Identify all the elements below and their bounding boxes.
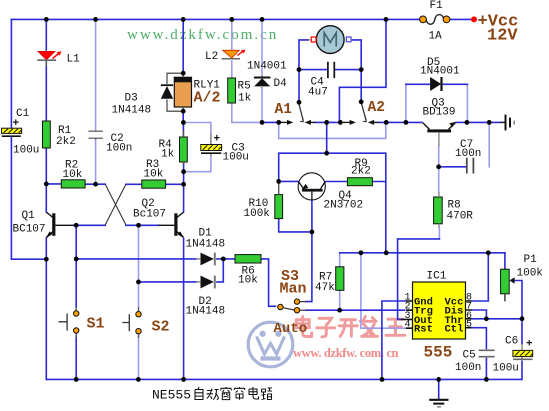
watermark red url bottom <box>293 346 399 360</box>
transistor Q2 <box>159 212 185 238</box>
svg-text:100n: 100n <box>106 143 132 155</box>
diode D1 <box>196 253 217 266</box>
svg-text:1N4148: 1N4148 <box>112 105 152 117</box>
svg-text:P1: P1 <box>524 254 538 266</box>
capacitor C6 <box>513 344 533 361</box>
svg-text:100n: 100n <box>455 148 481 160</box>
svg-text:2k2: 2k2 <box>56 136 76 148</box>
watermark green url top <box>127 27 278 43</box>
wire left border <box>11 19 46 259</box>
potentiometer P1 <box>501 269 515 301</box>
wire D5 horizontals <box>406 83 468 85</box>
capacitor C4 <box>328 62 334 78</box>
wire pin1 Gnd down <box>382 301 406 379</box>
IC1 pin names <box>414 297 463 336</box>
transistor Q4 <box>298 173 325 200</box>
wire D1 row <box>76 258 223 260</box>
LED L1 <box>37 51 61 67</box>
svg-text:100u: 100u <box>493 363 519 375</box>
wire contact rail right segment <box>456 121 501 123</box>
wire S3 Man contact up <box>306 232 312 302</box>
pushbutton S2 <box>122 308 141 339</box>
node +Vcc terminal <box>471 16 477 22</box>
wire motor right lead down <box>352 40 362 102</box>
svg-text:100k: 100k <box>244 208 271 220</box>
svg-text:D3: D3 <box>125 93 138 105</box>
capacitor C7 <box>467 158 474 174</box>
svg-text:NE555: NE555 <box>152 388 191 403</box>
svg-text:1N4001: 1N4001 <box>247 61 287 73</box>
svg-text:10k: 10k <box>63 169 83 181</box>
svg-text:www.dzkfw.com.cn: www.dzkfw.com.cn <box>127 27 278 43</box>
relay contact A1 <box>281 104 316 125</box>
svg-text:Auto: Auto <box>274 321 308 337</box>
watermark pink CJK 电子开发王 <box>296 317 405 337</box>
svg-text:12V: 12V <box>487 27 518 46</box>
diode D3 with bracket <box>161 73 183 111</box>
wire +12V sub-feed y153 <box>279 122 386 252</box>
svg-text:Man: Man <box>280 281 307 298</box>
svg-text:10k: 10k <box>144 169 164 181</box>
diode D5 <box>430 77 441 91</box>
svg-text:+: + <box>13 118 20 130</box>
wire L1/R1/Q1 column <box>45 19 47 379</box>
wire R7 leads light <box>339 253 341 310</box>
resistor R6 <box>235 255 261 263</box>
wire Q2 base row <box>126 224 159 226</box>
svg-text:100n: 100n <box>455 362 481 374</box>
resistor R2 <box>61 180 85 188</box>
wire Thr row <box>472 318 523 320</box>
ground earth bottom <box>429 400 448 407</box>
svg-text:S1: S1 <box>87 316 105 333</box>
capacitor C5 <box>479 350 495 356</box>
wire bypass U light <box>279 122 386 138</box>
title CJK 自动窗帘电路 <box>195 387 272 400</box>
wire ground stub bottom <box>438 379 440 398</box>
wire C4 row <box>299 69 361 71</box>
svg-text:10k: 10k <box>238 275 258 287</box>
wire D2 row <box>139 259 224 282</box>
svg-text:2k2: 2k2 <box>351 166 371 178</box>
capacitor C1 <box>2 128 22 137</box>
pushbutton S1 <box>59 307 79 338</box>
wire Q4 emitter down <box>311 200 313 232</box>
svg-text:+: + <box>214 134 221 146</box>
cross-coupling diagonals <box>105 184 126 224</box>
svg-text:100u: 100u <box>13 145 39 157</box>
svg-text:4u7: 4u7 <box>308 87 328 99</box>
svg-text:1N4148: 1N4148 <box>186 306 226 318</box>
wire C7 row <box>439 166 466 168</box>
ground chassis right <box>501 115 515 131</box>
wire C6 column <box>521 319 523 380</box>
wire C3 loop light <box>183 123 211 172</box>
wire motor left lead down <box>299 40 309 102</box>
svg-text:BC107: BC107 <box>13 224 46 236</box>
svg-text:www. dzkfw. com. cn: www. dzkfw. com. cn <box>293 346 399 360</box>
wire pin5 Ctl to C5 <box>472 328 487 380</box>
svg-text:L2: L2 <box>205 51 218 63</box>
wire relay column <box>182 19 184 122</box>
svg-text:BD139: BD139 <box>423 107 456 119</box>
svg-text:S2: S2 <box>152 319 170 336</box>
wire Rst path light <box>361 253 406 328</box>
svg-text:47k: 47k <box>315 282 335 294</box>
wire R4 / Q2 collector column <box>182 123 184 212</box>
resistor R3 <box>142 180 166 188</box>
resistor R1 <box>43 121 51 148</box>
wire +12V feed to A2 contact <box>339 19 386 122</box>
wire top rail <box>11 18 472 20</box>
svg-text:1k: 1k <box>238 93 252 105</box>
LED L2 <box>222 50 246 59</box>
wire Q3 base / R8 light <box>438 146 441 239</box>
svg-text:C5: C5 <box>463 350 476 362</box>
wire pin8 Vcc up <box>472 253 489 301</box>
wire contact rail left segment <box>262 121 422 123</box>
svg-text:Q1: Q1 <box>22 210 36 222</box>
wire P1 wiper to Thr <box>514 281 522 319</box>
IC1 pin numbers <box>405 293 473 331</box>
svg-text:R5: R5 <box>238 81 251 93</box>
svg-text:Ctl: Ctl <box>445 324 464 336</box>
wire Q2 emitter <box>183 239 185 380</box>
motor M <box>308 26 352 54</box>
svg-text:IC1: IC1 <box>427 271 447 283</box>
svg-text:555: 555 <box>424 344 453 362</box>
svg-text:Rst: Rst <box>414 324 433 336</box>
svg-text:4: 4 <box>405 320 411 331</box>
wire L2/R5 column light <box>232 19 262 122</box>
svg-text:1N4001: 1N4001 <box>420 66 460 78</box>
svg-text:1A: 1A <box>429 31 443 43</box>
resistor R4 <box>180 130 188 165</box>
svg-text:A1: A1 <box>275 102 293 118</box>
wire bottom rail <box>46 378 521 380</box>
svg-text:100u: 100u <box>223 152 249 164</box>
wire pin7 Dis down <box>472 310 487 319</box>
wire R6 row and S3 feed <box>223 259 275 306</box>
svg-text:L1: L1 <box>67 54 81 66</box>
wire Trg row <box>306 309 405 311</box>
switch S3 <box>278 299 307 313</box>
resistor R9 <box>347 178 372 186</box>
svg-text:A2: A2 <box>368 100 385 116</box>
resistor R8 <box>434 192 443 228</box>
wire R10 bottom jog <box>279 219 312 232</box>
svg-text:1N4148: 1N4148 <box>186 239 226 251</box>
diode D4 <box>254 76 271 89</box>
svg-text:1k: 1k <box>161 149 175 161</box>
svg-text:470R: 470R <box>447 211 474 223</box>
wire P1 top lead <box>504 253 506 269</box>
resistor R7 <box>336 267 344 291</box>
svg-text:2N3702: 2N3702 <box>324 200 364 212</box>
svg-text:C6: C6 <box>505 336 518 348</box>
wire Q1 base row <box>73 224 105 226</box>
svg-text:A/2: A/2 <box>194 90 221 107</box>
wire C2 column light <box>95 19 97 184</box>
wire D5 verticals light <box>406 84 468 122</box>
relay contact A2 <box>343 103 379 125</box>
svg-text:100k: 100k <box>517 268 544 280</box>
wire Q1-base/S1 column <box>75 225 77 379</box>
wire R9 leads <box>325 181 386 183</box>
wire C7 right vertical light <box>488 122 490 166</box>
resistor R5 <box>228 78 236 103</box>
svg-text:D4: D4 <box>274 78 288 90</box>
wire R2 row <box>46 183 105 185</box>
watermark logo circle <box>248 322 293 367</box>
wire Q2-base/S2 column light <box>138 225 140 379</box>
fuse F1 <box>420 15 450 25</box>
relay RLY1 coil <box>174 72 191 113</box>
wire D4 column light <box>261 19 263 122</box>
diode D2 <box>196 276 217 289</box>
svg-text:5: 5 <box>466 320 472 331</box>
capacitor C2 <box>88 131 103 140</box>
IC1 555 box <box>401 282 472 339</box>
wire Q4 base lead <box>279 180 299 182</box>
resistor R10 <box>275 181 283 218</box>
wire R3 row <box>126 183 184 185</box>
svg-text:+: + <box>526 339 533 351</box>
wire supply bus y252.8 <box>340 252 505 254</box>
transistor Q1 <box>46 212 74 238</box>
svg-text:Bc107: Bc107 <box>133 209 166 221</box>
capacitor C3 <box>201 134 222 156</box>
wire pin3 Out to R8 <box>398 239 440 320</box>
svg-text:F1: F1 <box>430 0 444 12</box>
transistor Q3 <box>423 122 456 147</box>
